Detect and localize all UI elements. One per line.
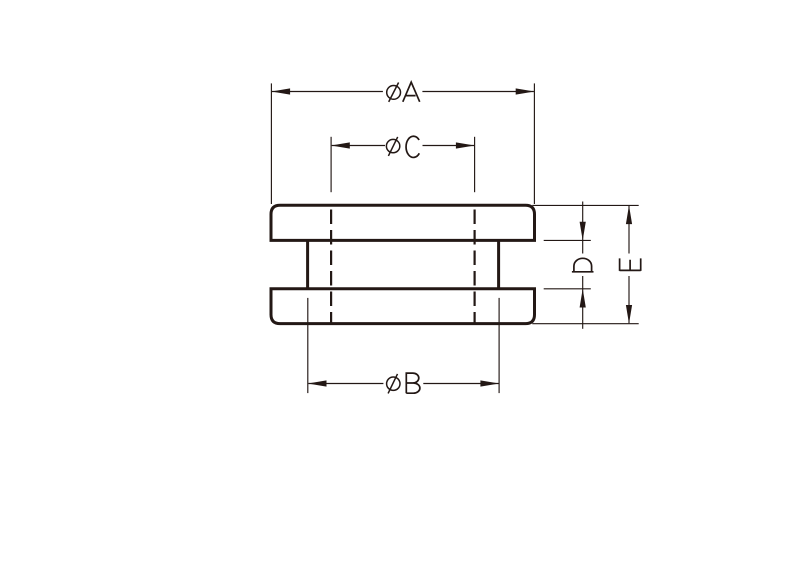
dimension C label ØC [386,136,419,157]
hidden hole line right (dashed) [474,210,476,323]
dimension D label [572,258,594,271]
hidden hole line left (dashed) [330,210,332,323]
dimension D extension line lower [544,288,591,290]
dimension A label ØA [387,82,420,102]
groove wall right [497,240,500,288]
dimension C extension line left [330,137,332,192]
dimension A line [271,88,534,94]
dimension E label [620,258,641,271]
dimension B label ØB [387,373,420,393]
dimension D extension line upper [544,239,591,241]
dimension C extension line right [474,137,476,192]
top flange outline [271,205,535,240]
dimension E line [626,205,632,323]
dimension B line [308,380,499,386]
dimension E extension line lower [532,323,638,325]
groove wall left [306,240,309,288]
dimension D line [580,202,586,329]
dimension A extension line right [533,83,535,204]
dimension C line [331,142,475,148]
dimension B extension line right [498,298,500,393]
dimension B extension line left [307,298,309,393]
dimension A extension line left [270,83,272,204]
dimension E extension line upper [532,204,638,206]
bottom flange outline [271,289,535,324]
